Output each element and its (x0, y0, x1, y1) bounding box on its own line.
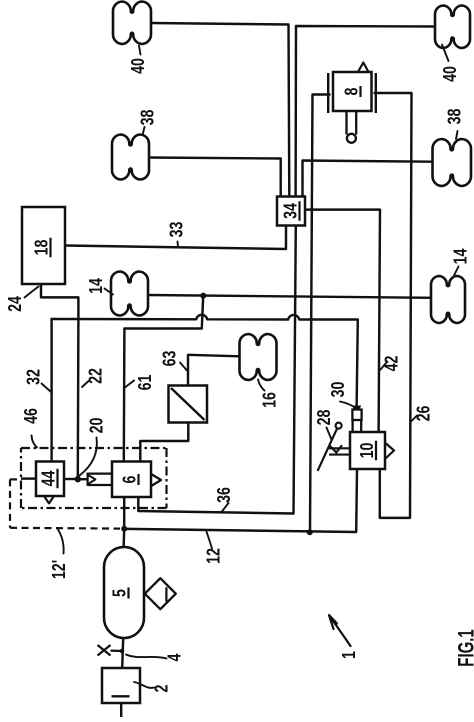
svg-text:2: 2 (151, 685, 172, 693)
svg-text:28: 28 (313, 410, 334, 426)
svg-text:12': 12' (48, 560, 69, 579)
svg-text:26: 26 (413, 406, 434, 422)
svg-text:30: 30 (327, 382, 348, 398)
svg-text:38: 38 (137, 110, 158, 126)
svg-text:4: 4 (164, 653, 185, 662)
svg-text:61: 61 (134, 375, 155, 391)
svg-text:18: 18 (31, 240, 52, 256)
svg-text:12: 12 (203, 548, 224, 564)
svg-text:6: 6 (119, 476, 140, 484)
svg-text:5: 5 (109, 589, 130, 597)
svg-text:36: 36 (213, 487, 234, 503)
svg-text:40: 40 (439, 66, 460, 82)
svg-text:38: 38 (444, 109, 465, 125)
svg-text:63: 63 (159, 351, 180, 367)
svg-text:16: 16 (259, 392, 280, 408)
svg-text:42: 42 (381, 356, 402, 372)
svg-text:14: 14 (85, 277, 106, 293)
svg-text:10: 10 (356, 443, 377, 459)
svg-text:44: 44 (38, 470, 59, 486)
svg-text:34: 34 (280, 202, 301, 218)
svg-text:20: 20 (86, 418, 107, 434)
svg-text:FIG.1: FIG.1 (454, 629, 474, 666)
svg-text:24: 24 (4, 295, 25, 311)
svg-text:8: 8 (341, 88, 362, 96)
svg-text:46: 46 (20, 408, 41, 424)
svg-text:33: 33 (166, 222, 187, 238)
svg-text:1: 1 (338, 651, 359, 659)
svg-text:14: 14 (450, 248, 471, 264)
svg-text:32: 32 (23, 369, 44, 385)
svg-text:40: 40 (127, 58, 148, 74)
